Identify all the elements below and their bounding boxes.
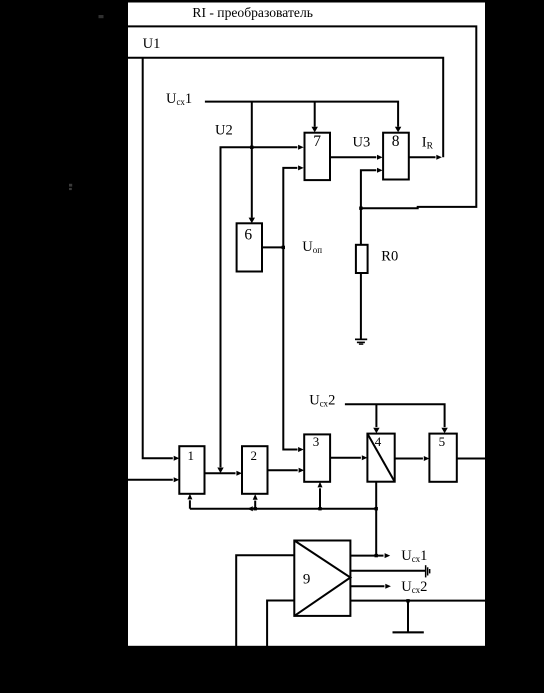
svg-text:RI - преобразователь: RI - преобразователь (192, 5, 313, 20)
svg-text:8: 8 (392, 133, 400, 150)
svg-text:U3: U3 (353, 135, 371, 151)
svg-text:R0: R0 (381, 249, 398, 265)
svg-text:4: 4 (375, 434, 382, 449)
svg-text:U2: U2 (215, 123, 233, 139)
svg-text:3: 3 (313, 434, 320, 449)
svg-text:9: 9 (303, 571, 311, 587)
svg-text:6: 6 (244, 227, 252, 244)
svg-text:5: 5 (439, 434, 446, 449)
svg-text:U1: U1 (143, 36, 161, 52)
svg-text:2: 2 (251, 448, 258, 463)
svg-text:7: 7 (313, 133, 321, 150)
svg-text:1: 1 (188, 448, 195, 463)
